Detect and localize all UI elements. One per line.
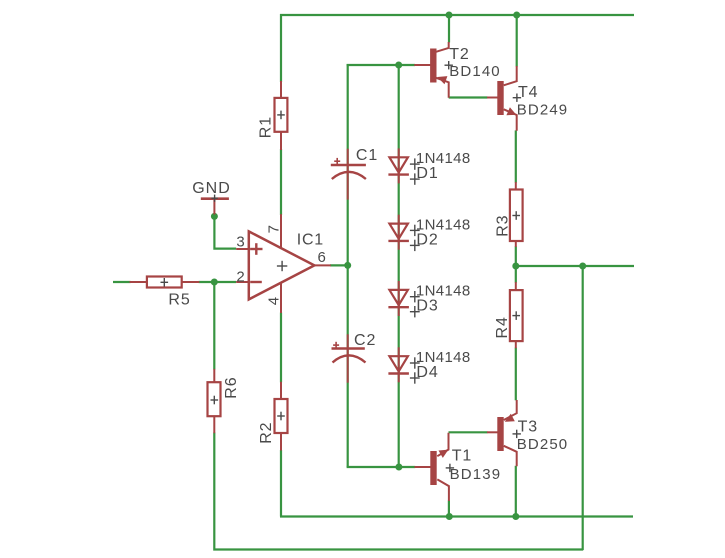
wire T1 collector drop (448, 501, 450, 518)
svg-text:T1: T1 (452, 448, 472, 465)
capacitor C1 plus mark (334, 158, 340, 165)
diode D1 pin segment (398, 148, 400, 183)
svg-text:R5: R5 (168, 292, 190, 309)
wire R6 branch down (213, 282, 215, 370)
resistor R2 bottom pin (280, 433, 282, 451)
resistor R5 left pin (130, 281, 148, 283)
resistor R3 origin cross (512, 211, 520, 220)
svg-text:D3: D3 (416, 298, 438, 315)
resistor R6 origin cross (211, 396, 219, 405)
resistor R5 origin cross (161, 278, 169, 287)
wire T2 collector riser (448, 14, 450, 43)
transistor T2 collector line (436, 42, 449, 52)
svg-text:C2: C2 (354, 332, 376, 349)
diode D3 triangle (389, 290, 408, 305)
resistor R2 top pin (280, 382, 282, 400)
diode D3 name origin cross (410, 306, 420, 317)
diode D2 pin segment (398, 215, 400, 250)
svg-text:R1: R1 (257, 116, 274, 138)
svg-text:6: 6 (318, 249, 326, 266)
transistor T3 base pin (487, 431, 498, 433)
op-amp pin 4 line (280, 282, 282, 313)
svg-text:R6: R6 (223, 376, 240, 398)
transistor T1 emitter line (up) (437, 433, 448, 457)
resistor R6 bottom pin (213, 416, 215, 433)
svg-text:IC1: IC1 (297, 231, 324, 248)
wire T4 collector riser (516, 14, 518, 67)
diode D1 triangle (389, 157, 408, 172)
wire output bus y=517 (280, 515, 633, 517)
diode D3 value origin cross (410, 291, 420, 302)
resistor R6 top pin (213, 369, 215, 383)
diode D4 value origin cross (410, 357, 420, 368)
capacitor C2 top plate (332, 347, 365, 349)
op-amp pin 3 line (236, 248, 249, 250)
wire diode chain vertical (398, 65, 400, 467)
diode D4 triangle (389, 356, 408, 371)
diode D4 name origin cross (410, 372, 420, 383)
transistor T3 upper line (504, 400, 517, 420)
resistor R4 bottom pin (515, 341, 517, 348)
wire T3 bottom drop (515, 466, 517, 518)
svg-text:D2: D2 (416, 231, 438, 248)
svg-text:R3: R3 (494, 215, 511, 237)
diode D2 value origin cross (410, 225, 420, 236)
transistor T4 base bar (497, 81, 503, 115)
resistor R4 body (510, 290, 523, 341)
svg-text:4: 4 (265, 297, 282, 305)
wire T1 base horizontal (347, 466, 416, 468)
svg-text:BD139: BD139 (450, 466, 502, 483)
junction GND (211, 213, 218, 220)
junction R3 / R4 / output (512, 263, 519, 270)
wire input stub (113, 281, 131, 283)
diode D4 pin segment (398, 347, 400, 382)
resistor R4 top pin (515, 282, 517, 291)
capacitor C1 bottom plate arc (332, 172, 366, 179)
diode D2 name origin cross (410, 240, 420, 251)
diode D3 cathode bar (388, 306, 409, 308)
resistor R1 bottom pin (280, 132, 282, 150)
capacitor C2 plus mark (333, 342, 339, 349)
op-amp inverting minus mark (250, 281, 262, 283)
transistor T1 base bar (430, 451, 436, 485)
svg-text:2: 2 (236, 269, 244, 286)
svg-text:BD249: BD249 (517, 102, 569, 119)
wire R1 top riser (280, 14, 282, 82)
resistor R6 body (208, 382, 221, 416)
diode D2 triangle (389, 224, 408, 239)
svg-text:BD140: BD140 (449, 63, 501, 80)
diode D3 pin segment (398, 281, 400, 316)
wire T1 emitter to T3 base (449, 431, 488, 433)
wire pin4 to R2 (280, 313, 282, 383)
wire R1 bottom to pin 7 (280, 149, 282, 215)
transistor T1 collector line (down) (437, 479, 449, 501)
wire T2 emitter to T4 base (449, 96, 488, 98)
wire top supply rail (280, 14, 634, 16)
resistor R5 right pin (182, 281, 200, 283)
transistor T2 base bar (430, 49, 436, 83)
transistor T1 base pin (415, 466, 431, 468)
resistor R4 origin cross (512, 311, 520, 320)
svg-text:D4: D4 (416, 364, 438, 381)
svg-text:T3: T3 (518, 419, 538, 436)
wire R3/R4 junction to right (516, 265, 634, 267)
wire op-amp output (330, 264, 349, 266)
capacitor C1 pin segment (347, 149, 349, 200)
junction diode chain bottom / T1 base (395, 464, 402, 471)
junction T1 collector / bus (446, 513, 453, 520)
op-amp non-inverting plus mark (250, 243, 262, 255)
wire T2 base horizontal (347, 64, 415, 66)
ground symbol GND bar (201, 197, 229, 200)
wire T4 emitter to R3 top (515, 130, 517, 182)
diode D1 name origin cross (410, 173, 420, 184)
junction output / right vertical (579, 263, 586, 270)
junction T4 collector / rail (513, 12, 520, 19)
svg-text:D1: D1 (416, 165, 438, 182)
resistor R5 body (147, 277, 182, 288)
wire R6 bottom to bottom rail (214, 433, 583, 550)
svg-text:R4: R4 (494, 316, 511, 338)
svg-text:T4: T4 (518, 84, 538, 101)
op-amp origin cross (277, 261, 287, 271)
junction T2 collector / rail (446, 12, 453, 19)
wire C1/C2 vertical (op-amp output net) (347, 64, 349, 467)
diode D1 value origin cross (410, 158, 420, 169)
transistor T4 emitter line (504, 109, 517, 131)
svg-text:3: 3 (236, 234, 244, 251)
transistor T2 emitter arrow (PNP) (437, 76, 447, 84)
diode D1 cathode bar (388, 173, 409, 175)
wire R5 to pin 2 (199, 281, 237, 283)
wire GND drop (214, 215, 236, 249)
transistor T2 base pin (414, 64, 430, 66)
diode D2 cathode bar (388, 240, 409, 242)
resistor R3 top pin (515, 182, 517, 190)
svg-text:BD250: BD250 (517, 436, 569, 453)
op-amp pin 2 line (236, 281, 249, 283)
capacitor C1 top plate (331, 164, 366, 166)
resistor R2 origin cross (277, 412, 285, 421)
transistor T4 base pin (487, 97, 498, 99)
svg-text:T2: T2 (449, 46, 469, 63)
wire R2 bottom drop (280, 450, 282, 517)
wire R3 bottom to R4 top (515, 246, 517, 282)
svg-text:C1: C1 (356, 147, 378, 164)
transistor T4 emitter arrow (NPN) (506, 107, 516, 115)
ground pin stub (213, 199, 215, 215)
transistor T3 lower line (504, 446, 517, 466)
capacitor C2 bottom plate arc (333, 355, 366, 362)
diode D4 cathode bar (388, 372, 409, 374)
transistor T3 upper arrow (PNP) (505, 414, 515, 422)
wire right vertical (x=583) (582, 266, 584, 550)
resistor R1 origin cross (277, 111, 285, 120)
transistor T3 base bar (497, 417, 503, 451)
transistor T4 origin cross (513, 94, 521, 102)
junction op-amp output / C-line (344, 262, 351, 269)
junction R5 / R6 / pin 2 (211, 279, 218, 286)
transistor T4 collector line (504, 66, 517, 85)
transistor T3 origin cross (513, 430, 521, 438)
resistor R3 bottom pin (515, 241, 517, 247)
transistor T1 origin cross (446, 464, 454, 472)
junction T3 / bus (512, 513, 519, 520)
junction diode chain top / T2 base (395, 62, 402, 69)
op-amp pin 7 line (280, 214, 282, 248)
transistor T2 emitter line (436, 78, 449, 98)
svg-text:GND: GND (192, 180, 231, 197)
transistor T2 origin cross (445, 61, 453, 69)
svg-text:7: 7 (265, 225, 282, 233)
capacitor C2 pin segment (347, 334, 349, 382)
resistor R2 body (275, 399, 288, 433)
svg-text:R2: R2 (258, 422, 275, 444)
resistor R1 top pin (280, 81, 282, 99)
op-amp pin 6 line (314, 264, 331, 266)
resistor R1 body (275, 98, 288, 132)
ground origin cross (211, 195, 217, 202)
op-amp IC1 triangle (249, 231, 315, 299)
wire R4 bottom to T3 (515, 348, 517, 401)
resistor R3 body (510, 190, 523, 242)
transistor T1 emitter arrow (NPN) (439, 450, 449, 458)
